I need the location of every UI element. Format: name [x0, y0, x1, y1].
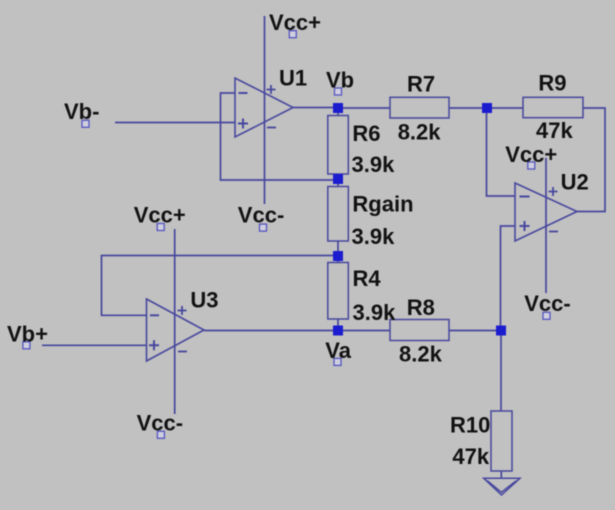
- wire node Vb to R7: [338, 107, 390, 109]
- op-amp U2: [515, 183, 577, 241]
- node between Rgain and R4: [333, 251, 343, 261]
- wire U1 minus-input feedback to node below R6: [221, 93, 339, 180]
- node R7/R9/U2- junction square: [482, 103, 492, 113]
- node marker Vcc- (U1): [260, 224, 267, 231]
- wire middle column node Vb to R6: [337, 108, 339, 116]
- wire U3 minus-input feedback to node between Rgain and R4: [102, 256, 339, 316]
- node marker Va: [334, 358, 341, 365]
- svg-text:Vcc-: Vcc-: [238, 202, 284, 227]
- svg-text:Vcc-: Vcc-: [137, 411, 183, 436]
- resistor R6: [328, 116, 349, 175]
- node R8/R10/U2+ junction square: [496, 326, 506, 336]
- svg-text:R7: R7: [407, 72, 435, 97]
- wire R9 right to U2 output feedback: [577, 108, 605, 212]
- svg-text:3.9k: 3.9k: [352, 152, 396, 177]
- node marker Vcc- (U3): [157, 431, 164, 438]
- svg-text:Va: Va: [325, 338, 351, 363]
- svg-text:Rgain: Rgain: [352, 191, 413, 216]
- wire U3 output to node Va: [204, 330, 338, 332]
- svg-text:U1: U1: [279, 66, 307, 91]
- wire Vcc+ line through U3: [174, 229, 176, 414]
- op-amp U1: [235, 78, 293, 137]
- svg-text:R8: R8: [407, 295, 435, 320]
- svg-text:R6: R6: [352, 121, 380, 146]
- node marker Vcc+ (U3): [157, 224, 164, 231]
- wire R8 to junction node: [449, 330, 501, 332]
- wire Vb+ input to U3 plus input: [42, 344, 147, 346]
- ground: [484, 478, 520, 495]
- wire Vcc+ line through U2: [545, 158, 547, 293]
- svg-text:Vcc+: Vcc+: [505, 142, 557, 167]
- wire U1 output to node Vb: [293, 107, 338, 109]
- wire node to Rgain top: [337, 180, 339, 187]
- wire Vcc+ line through U1: [264, 16, 266, 204]
- svg-text:Vb+: Vb+: [7, 321, 48, 346]
- resistor R7: [390, 97, 449, 118]
- svg-text:R9: R9: [538, 71, 566, 96]
- svg-text:47k: 47k: [452, 444, 489, 469]
- wire node to R4 top: [337, 256, 339, 263]
- resistor R10: [491, 411, 512, 471]
- node marker Vb-: [82, 120, 89, 127]
- resistor R4: [328, 263, 349, 320]
- node marker Vb+: [23, 342, 30, 349]
- svg-text:R4: R4: [353, 266, 382, 291]
- svg-text:47k: 47k: [536, 118, 573, 143]
- node marker Vcc- (U2): [543, 312, 550, 319]
- svg-text:Vb-: Vb-: [64, 99, 99, 124]
- svg-text:Vcc+: Vcc+: [134, 202, 186, 227]
- resistor R9: [523, 97, 583, 117]
- wire R4 bottom to node Va: [337, 319, 339, 331]
- wire R7 to junction node: [449, 107, 487, 109]
- svg-text:3.9k: 3.9k: [353, 300, 397, 325]
- svg-text:8.2k: 8.2k: [399, 342, 443, 367]
- svg-text:U3: U3: [190, 288, 218, 313]
- wire R10 bottom to ground: [500, 471, 502, 478]
- svg-text:U2: U2: [561, 169, 589, 194]
- svg-text:Vcc+: Vcc+: [269, 10, 321, 35]
- node marker Vcc+ (U2): [528, 162, 535, 169]
- svg-text:R10: R10: [450, 412, 490, 437]
- node Vb junction square: [333, 103, 343, 113]
- node between R6 and Rgain: [333, 174, 343, 184]
- wire junction down to R10: [500, 331, 502, 412]
- svg-text:8.2k: 8.2k: [398, 120, 442, 145]
- op-amp U3: [147, 299, 205, 361]
- resistor R8: [390, 320, 449, 341]
- svg-text:Vcc-: Vcc-: [524, 291, 570, 316]
- wire R6 bottom to node: [337, 174, 339, 180]
- node marker Vb: [335, 88, 342, 95]
- wire Rgain bottom to node: [337, 241, 339, 256]
- node marker Vcc+ top: [289, 31, 296, 38]
- node Va junction square: [333, 326, 343, 336]
- wire node below R8 up to U2 plus input: [501, 226, 516, 331]
- wire junction to R9: [487, 107, 523, 109]
- wire Vb- input to U1 plus input: [115, 122, 235, 124]
- wire junction down to U2 minus input: [487, 108, 516, 196]
- wire node Va to R8: [338, 330, 390, 332]
- svg-text:Vb: Vb: [326, 67, 354, 92]
- resistor Rgain: [328, 187, 349, 242]
- svg-text:3.9k: 3.9k: [352, 224, 396, 249]
